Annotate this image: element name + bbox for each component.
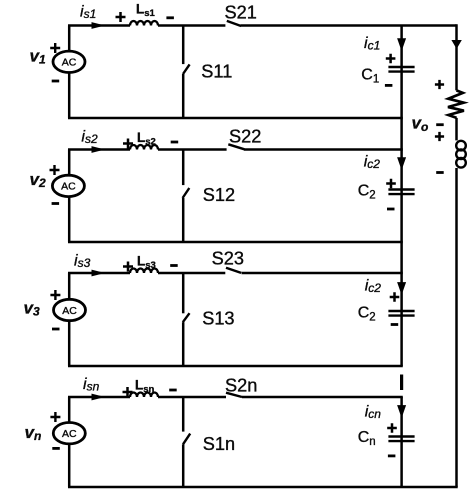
label v1 — [30, 47, 46, 67]
wire stagen left vertical — [68, 397, 71, 487]
current arrow is1 — [92, 22, 106, 29]
svg-text:is1: is1 — [80, 3, 96, 21]
wire stage2 left vertical — [68, 150, 71, 243]
plus load R — [435, 80, 444, 89]
plus C2 — [386, 179, 396, 189]
svg-text:S1n: S1n — [203, 434, 235, 454]
wire stage3 bottom — [68, 365, 403, 368]
AC source vn — [53, 423, 85, 444]
label S22 — [229, 127, 261, 147]
svg-text:S12: S12 — [203, 185, 235, 205]
svg-text:S23: S23 — [212, 248, 244, 268]
plus Lsn — [123, 387, 133, 397]
switch S12 — [183, 150, 190, 243]
label Ls3 — [137, 253, 156, 271]
label C2 stage3 — [358, 304, 376, 323]
wire stage3 left vertical — [68, 273, 71, 366]
minus Ls2 — [171, 141, 179, 144]
current arrow is3 — [92, 270, 106, 277]
svg-text:S2n: S2n — [225, 376, 257, 396]
svg-text:AC: AC — [62, 428, 77, 440]
current arrow ic2 — [397, 157, 406, 170]
plus C1 — [386, 54, 396, 64]
current arrow io — [451, 40, 461, 49]
svg-text:S21: S21 — [225, 3, 257, 23]
label Cn — [358, 429, 376, 448]
wire load lower — [455, 168, 458, 487]
minus Cn — [388, 454, 396, 457]
plus Ls2 — [123, 139, 133, 149]
label C2 — [358, 182, 376, 201]
wire stage2 top — [68, 148, 403, 151]
svg-text:S13: S13 — [202, 309, 234, 329]
current arrow is2 — [92, 146, 106, 153]
switch S23 blade — [226, 268, 241, 273]
plus v3 — [50, 290, 60, 300]
plus vn — [50, 412, 60, 422]
minus C2 stage3 — [391, 323, 399, 326]
label is2 — [81, 128, 98, 146]
resistor load R — [448, 90, 464, 118]
label ic2 — [364, 154, 381, 172]
AC source v3 — [54, 299, 86, 320]
label S2n — [225, 376, 257, 396]
svg-text:is3: is3 — [74, 253, 91, 271]
label S13 — [202, 309, 234, 329]
current arrow ic2 stage3 — [397, 282, 406, 295]
inductor load L — [456, 141, 466, 168]
switch S11 — [183, 26, 190, 119]
svg-text:icn: icn — [365, 403, 382, 421]
minus C1 — [385, 84, 393, 87]
svg-text:is2: is2 — [81, 128, 98, 146]
current arrow icn — [397, 405, 406, 418]
minus Ls3 — [170, 264, 178, 267]
minus vn — [52, 447, 60, 450]
inductor Ls2 — [130, 145, 158, 150]
capacitor Cn — [388, 437, 414, 442]
current arrow isn — [92, 394, 106, 401]
capacitor C1 — [388, 67, 414, 72]
label S23 — [212, 248, 244, 268]
wire load branch upper — [455, 24, 458, 90]
label Ls2 — [137, 130, 156, 148]
AC source v1 — [53, 51, 85, 72]
label is1 — [80, 3, 96, 21]
plus C2 stage3 — [390, 292, 400, 302]
AC source v2 — [52, 175, 84, 196]
label Ls1 — [136, 1, 156, 19]
capacitor C2 — [388, 190, 414, 195]
svg-text:ic2: ic2 — [365, 278, 382, 296]
plus v1 — [50, 43, 60, 53]
svg-text:AC: AC — [62, 305, 77, 317]
inductor Ls1 — [130, 21, 158, 26]
inductor Ls3 — [130, 269, 158, 274]
wire bus vertical solid — [400, 26, 403, 367]
label ic2 stage3 — [365, 278, 382, 296]
wire stage3 top — [68, 272, 403, 275]
plus load L — [435, 132, 444, 141]
plus Ls1 — [116, 12, 126, 22]
label is3 — [74, 253, 91, 271]
wire stage1 left vertical — [68, 26, 71, 119]
label ic1 — [364, 35, 380, 53]
label icn — [365, 403, 382, 421]
label C1 — [361, 67, 379, 86]
minus v3 — [52, 328, 60, 331]
switch S22 blade — [228, 144, 244, 149]
plus v2 — [50, 165, 60, 175]
wire stagen top — [68, 396, 403, 399]
current arrow ic1 — [397, 38, 406, 51]
svg-text:AC: AC — [61, 181, 76, 193]
inductor Lsn — [130, 393, 158, 398]
capacitor C2 stage3 — [388, 311, 414, 316]
svg-text:ic1: ic1 — [364, 35, 380, 53]
label v3 — [24, 299, 40, 319]
label vn — [25, 423, 42, 443]
wire stagen bottom — [68, 486, 458, 489]
minus Lsn — [169, 389, 177, 392]
switch S13 — [183, 273, 190, 366]
switch S2n blade — [226, 393, 242, 397]
svg-text:S22: S22 — [229, 127, 261, 147]
label v2 — [30, 170, 46, 190]
wire stage1 bottom — [68, 117, 403, 120]
label isn — [83, 376, 100, 394]
plus Cn — [387, 423, 397, 433]
wire bus dashed continuation — [400, 375, 403, 391]
minus v2 — [52, 202, 60, 205]
label S12 — [203, 185, 235, 205]
label S11 — [201, 61, 232, 81]
minus Ls1 — [166, 16, 174, 19]
switch S21 blade — [227, 21, 241, 26]
wire bus vertical lower — [400, 397, 403, 487]
minus vo — [436, 123, 444, 126]
minus v1 — [52, 80, 60, 83]
wire stage2 bottom — [68, 241, 403, 244]
svg-text:ic2: ic2 — [364, 154, 381, 172]
label Lsn — [135, 378, 155, 396]
wire stage1 top — [68, 24, 457, 27]
minus C2 — [387, 208, 395, 211]
plus Ls3 — [123, 262, 133, 272]
svg-text:S11: S11 — [201, 61, 232, 81]
label vo — [412, 113, 429, 134]
label S21 — [225, 3, 257, 23]
label S1n — [203, 434, 235, 454]
svg-text:AC: AC — [62, 57, 77, 69]
minus load L — [436, 171, 444, 174]
svg-text:isn: isn — [83, 376, 100, 394]
switch S1n — [183, 397, 190, 487]
wire load mid — [455, 118, 458, 140]
